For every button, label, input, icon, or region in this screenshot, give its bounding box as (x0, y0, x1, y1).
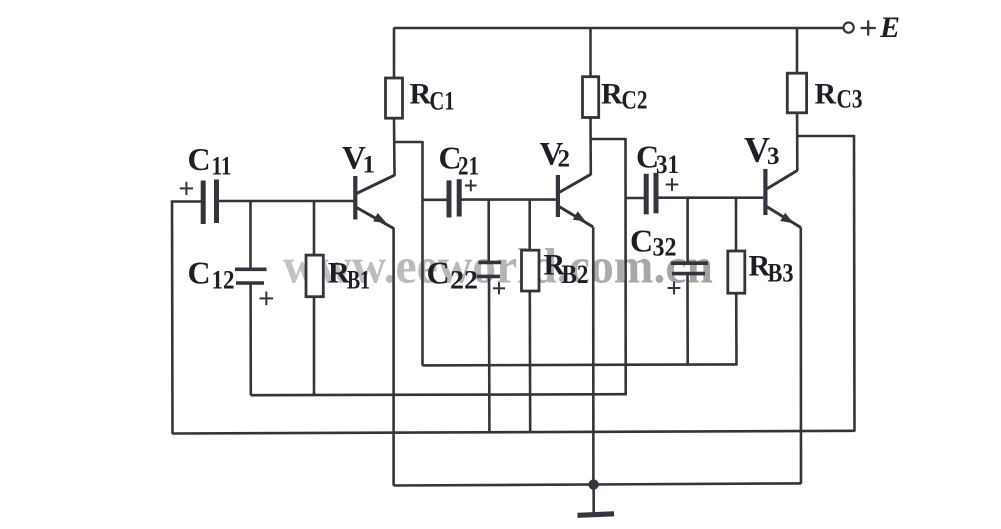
svg-text:R: R (815, 78, 837, 111)
resistor RB1 (306, 255, 323, 297)
wire V1 collector feedback drop (421, 141, 424, 366)
svg-text:1: 1 (363, 152, 376, 179)
wire RC2 to V2 collector (589, 118, 592, 176)
wire emitter ground rail (H4) (394, 483, 801, 485)
polarity + C11 (180, 187, 193, 189)
label +E (861, 27, 876, 29)
svg-text:12: 12 (212, 266, 235, 295)
svg-text:11: 11 (212, 152, 232, 181)
wire C12 bottom lead (249, 283, 252, 395)
svg-text:R: R (410, 78, 432, 111)
polarity + C31 (666, 184, 679, 186)
wire RB2 bottom lead (528, 291, 531, 432)
wire V3 base (659, 196, 764, 199)
resistor RC2 (583, 77, 599, 118)
wire V2 emitter drop (592, 227, 595, 485)
wire C21 left (423, 199, 448, 202)
wire feedback left drop (171, 201, 174, 434)
resistor RC3 (787, 73, 806, 113)
wire C22 top lead (487, 200, 490, 263)
capacitor C12 (235, 267, 267, 271)
wire RC3 to V3 collector (796, 113, 799, 171)
capacitor C31 (644, 174, 649, 215)
svg-text:C3: C3 (837, 85, 863, 114)
capacitor C22 (479, 261, 502, 265)
wire V2 base (462, 198, 556, 201)
wire V3 emitter drop (799, 228, 802, 484)
svg-text:B2: B2 (562, 260, 589, 289)
polarity + C32 (668, 287, 681, 289)
wire RB3 bottom lead (735, 293, 738, 365)
junction ground node (588, 479, 598, 489)
svg-text:C: C (188, 141, 211, 177)
svg-text:C: C (188, 255, 211, 291)
wire RC1 top lead (393, 28, 396, 79)
wire C32 bottom lead (686, 274, 689, 366)
wire C32 top lead (686, 198, 689, 264)
capacitor C11 (201, 181, 206, 225)
wire RB1 top lead (313, 201, 316, 256)
wire net V3 collector to C11 C22 RB2 (H3) (172, 431, 855, 434)
wire V1 emitter drop (392, 228, 395, 486)
transistor V1 (353, 176, 357, 220)
svg-text:R: R (601, 78, 623, 111)
svg-text:3: 3 (767, 143, 780, 170)
wire C31 left (626, 197, 646, 200)
wire V3 collector feedback drop (853, 135, 856, 432)
terminal +E (844, 23, 854, 33)
svg-text:31: 31 (656, 150, 679, 179)
svg-text:B3: B3 (768, 259, 794, 288)
wire C11 left (171, 200, 201, 203)
svg-text:C1: C1 (430, 87, 455, 116)
resistor RB2 (522, 250, 540, 291)
wire RB1 bottom lead (313, 297, 316, 395)
wire V1 base (217, 200, 354, 203)
wire C12 top lead (249, 201, 252, 270)
transistor V3 (763, 169, 767, 215)
wire +E supply rail (394, 27, 844, 30)
resistor RB3 (728, 251, 745, 293)
wire V1 collector jog (394, 141, 423, 144)
wire V3 collector jog (797, 135, 854, 138)
polarity + C21 (465, 185, 477, 187)
svg-text:22: 22 (450, 266, 478, 295)
svg-text:E: E (879, 11, 900, 44)
wire net V1 collector to C32 RB3 (H1) (423, 364, 738, 365)
capacitor C21 (447, 180, 452, 217)
wire V2 collector jog (591, 138, 626, 141)
wire RB3 top lead (735, 198, 738, 252)
svg-text:C: C (427, 255, 450, 291)
wire V2 collector feedback drop (624, 138, 627, 395)
resistor RC1 (386, 78, 403, 118)
svg-text:C: C (630, 223, 653, 259)
ground (578, 514, 615, 516)
svg-text:C2: C2 (622, 86, 648, 115)
wire RB2 top lead (528, 200, 531, 251)
svg-text:2: 2 (558, 146, 571, 173)
svg-text:21: 21 (458, 152, 479, 181)
svg-text:B1: B1 (347, 266, 370, 295)
wire RC2 top lead (589, 28, 592, 78)
svg-text:32: 32 (653, 233, 677, 262)
wire RC3 top lead (796, 28, 799, 75)
wire RC1 to V1 collector (393, 118, 396, 176)
wire C22 bottom lead (488, 276, 491, 432)
polarity + C12 (260, 297, 274, 299)
capacitor C32 (671, 261, 708, 265)
wire net V2 collector to C12 RB1 (H2) (251, 394, 627, 395)
transistor V2 (556, 175, 560, 217)
wire ground stem (592, 485, 595, 513)
polarity + C22 (493, 287, 505, 289)
